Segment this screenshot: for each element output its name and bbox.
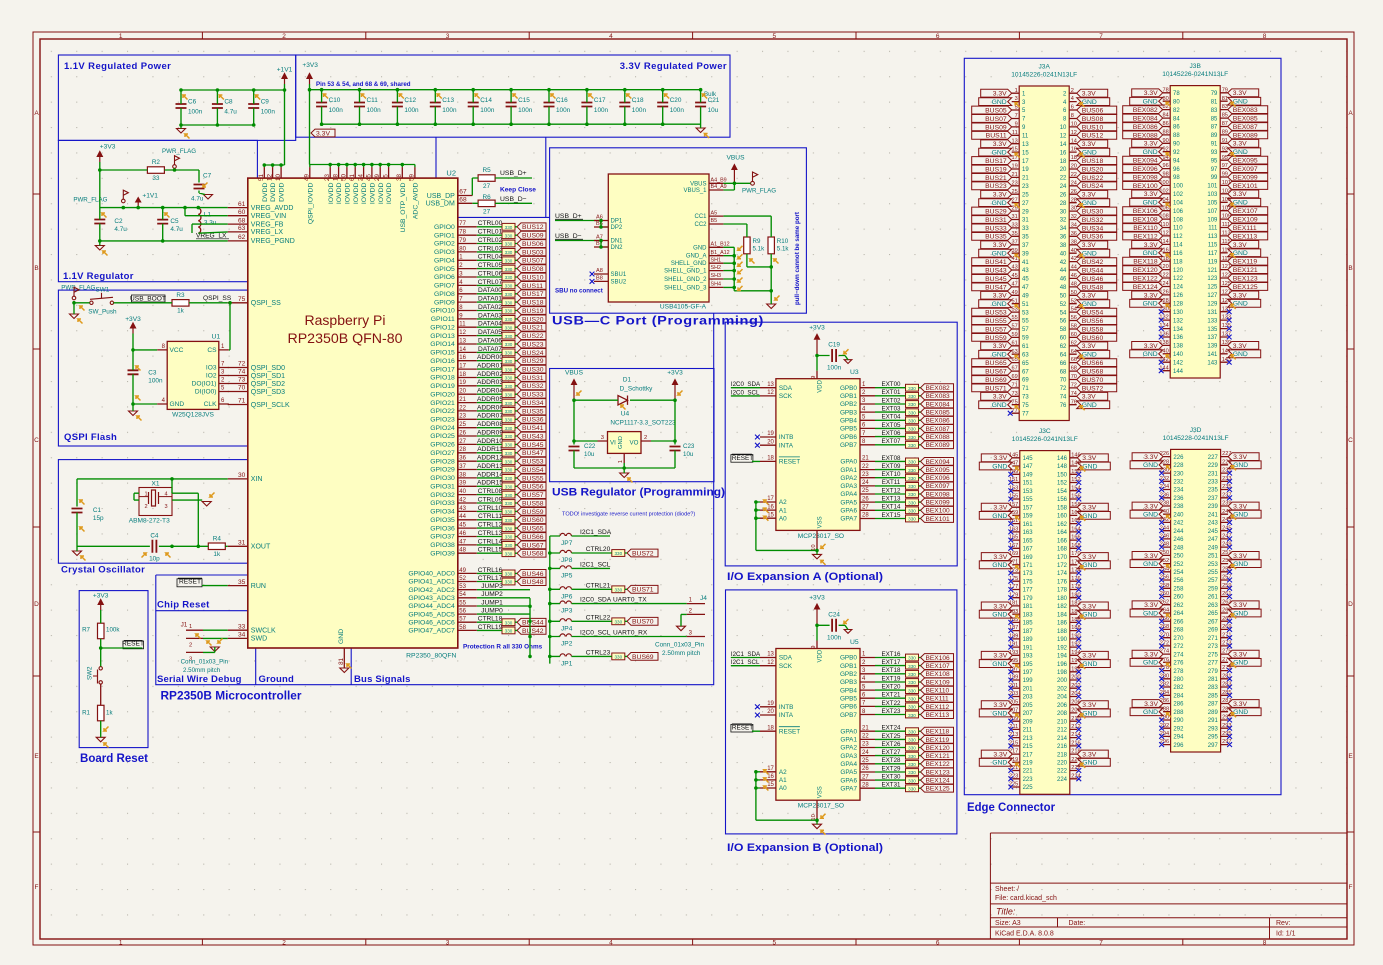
svg-text:62: 62 xyxy=(238,234,246,241)
resistor R9 5.1k xyxy=(744,237,750,254)
svg-text:DVDD: DVDD xyxy=(279,183,286,202)
svg-text:133: 133 xyxy=(1207,318,1218,324)
svg-text:102: 102 xyxy=(1173,192,1184,198)
svg-text:BUS24: BUS24 xyxy=(522,350,544,357)
svg-text:330: 330 xyxy=(908,509,916,514)
svg-text:330: 330 xyxy=(908,746,916,751)
svg-text:GPIO2: GPIO2 xyxy=(434,241,455,248)
svg-text:136: 136 xyxy=(1173,335,1184,341)
svg-text:135: 135 xyxy=(1207,327,1218,333)
svg-text:4.7u: 4.7u xyxy=(224,108,237,115)
svg-text:XIN: XIN xyxy=(251,476,263,483)
svg-text:54: 54 xyxy=(1060,310,1067,316)
svg-text:199: 199 xyxy=(1023,678,1034,684)
svg-text:GPIO33: GPIO33 xyxy=(430,500,455,507)
svg-text:188: 188 xyxy=(1057,629,1068,635)
svg-text:A1: A1 xyxy=(779,507,787,514)
svg-text:100n: 100n xyxy=(442,107,457,114)
svg-text:BUS07: BUS07 xyxy=(522,258,544,265)
svg-text:61: 61 xyxy=(238,201,246,208)
svg-text:GND: GND xyxy=(1143,512,1158,519)
svg-text:34: 34 xyxy=(238,632,246,639)
svg-text:286: 286 xyxy=(1173,702,1184,708)
svg-text:26: 26 xyxy=(862,766,869,772)
svg-text:56: 56 xyxy=(1060,319,1067,325)
ground at U2 GND pin xyxy=(340,668,349,673)
svg-text:4.7u: 4.7u xyxy=(170,226,183,233)
svg-text:4: 4 xyxy=(609,33,613,40)
capacitor C17 xyxy=(581,103,592,107)
svg-text:63: 63 xyxy=(238,225,246,232)
svg-text:VBUS: VBUS xyxy=(690,181,706,187)
svg-text:33: 33 xyxy=(152,175,160,182)
svg-text:BEX111: BEX111 xyxy=(1233,225,1257,232)
PWR_FLAG +1V1 xyxy=(122,199,126,203)
svg-text:238: 238 xyxy=(1173,504,1184,510)
svg-text:4: 4 xyxy=(165,492,168,498)
svg-text:17: 17 xyxy=(767,766,774,772)
svg-text:GND: GND xyxy=(992,612,1007,619)
svg-text:BEX120: BEX120 xyxy=(926,745,951,752)
svg-text:GPIO35: GPIO35 xyxy=(430,517,455,524)
svg-text:GND: GND xyxy=(1082,99,1097,106)
svg-text:BUS08: BUS08 xyxy=(1082,116,1104,123)
svg-text:24: 24 xyxy=(1060,184,1067,190)
svg-text:R3: R3 xyxy=(176,292,185,299)
svg-text:GPIO43_ADC3: GPIO43_ADC3 xyxy=(408,595,455,602)
svg-text:183: 183 xyxy=(1023,612,1034,618)
svg-text:Pin 53 & 54, and 68 & 69, shar: Pin 53 & 54, and 68 & 69, shared xyxy=(316,81,411,88)
svg-text:66: 66 xyxy=(1060,361,1067,367)
svg-text:QSPI_SD2: QSPI_SD2 xyxy=(251,381,285,388)
svg-text:SWD: SWD xyxy=(251,636,267,643)
svg-text:19: 19 xyxy=(767,431,774,437)
svg-text:D1: D1 xyxy=(623,377,632,384)
svg-text:BEX106: BEX106 xyxy=(926,655,951,662)
svg-text:IOVDD: IOVDD xyxy=(353,183,360,205)
jumper JP7 xyxy=(560,533,571,536)
svg-text:JP2: JP2 xyxy=(561,641,573,648)
svg-text:272: 272 xyxy=(1173,644,1184,650)
svg-text:QSPI_SS: QSPI_SS xyxy=(203,295,232,302)
svg-text:NCP1117-3.3_SOT223: NCP1117-3.3_SOT223 xyxy=(610,420,676,427)
svg-text:BEX112: BEX112 xyxy=(1133,233,1158,240)
svg-text:BUS60: BUS60 xyxy=(522,517,544,524)
svg-text:RESET: RESET xyxy=(779,459,800,466)
svg-text:264: 264 xyxy=(1173,611,1184,617)
svg-text:25: 25 xyxy=(862,488,869,494)
svg-text:118: 118 xyxy=(1173,259,1183,265)
svg-text:BEX125: BEX125 xyxy=(1233,284,1258,291)
svg-text:137: 137 xyxy=(1207,335,1218,341)
svg-text:BUS54: BUS54 xyxy=(1082,310,1104,317)
svg-text:GPA0: GPA0 xyxy=(840,459,857,466)
svg-text:C18: C18 xyxy=(632,97,644,104)
capacitor C19 100n xyxy=(832,349,836,362)
svg-text:29: 29 xyxy=(1022,209,1029,215)
svg-text:Protection R all 330 Ohms: Protection R all 330 Ohms xyxy=(463,644,543,651)
svg-text:C16: C16 xyxy=(556,97,568,104)
svg-text:3.3V: 3.3V xyxy=(993,554,1007,561)
svg-text:73: 73 xyxy=(1022,395,1029,401)
svg-text:17: 17 xyxy=(1022,159,1029,165)
svg-text:BUS46: BUS46 xyxy=(1082,276,1104,283)
svg-text:DN2: DN2 xyxy=(611,245,624,251)
svg-text:5: 5 xyxy=(772,33,776,40)
svg-text:GND: GND xyxy=(1233,99,1248,106)
svg-text:GPIO31: GPIO31 xyxy=(430,484,455,491)
svg-text:3.3V: 3.3V xyxy=(1233,454,1247,461)
svg-text:100n: 100n xyxy=(404,107,419,114)
svg-text:GPIO0: GPIO0 xyxy=(434,224,455,231)
svg-text:34: 34 xyxy=(1060,226,1067,232)
svg-text:3.3V: 3.3V xyxy=(1082,394,1096,401)
svg-text:3.3V: 3.3V xyxy=(1082,343,1096,350)
svg-text:139: 139 xyxy=(1207,344,1218,350)
svg-text:C: C xyxy=(1348,437,1353,444)
svg-text:BUS19: BUS19 xyxy=(522,308,544,315)
svg-text:129: 129 xyxy=(1207,302,1218,308)
svg-text:QSPI_SD1: QSPI_SD1 xyxy=(251,373,285,380)
svg-text:152: 152 xyxy=(1057,481,1068,487)
svg-text:QSPI Flash: QSPI Flash xyxy=(64,432,117,443)
svg-text:257: 257 xyxy=(1208,578,1219,584)
svg-text:100n: 100n xyxy=(329,107,344,114)
capacitor C20 xyxy=(657,103,668,107)
svg-text:100n: 100n xyxy=(518,107,533,114)
svg-text:SBU2: SBU2 xyxy=(611,279,627,285)
svg-text:3.3V: 3.3V xyxy=(1082,242,1096,249)
svg-text:10u: 10u xyxy=(708,107,719,114)
svg-text:BUS58: BUS58 xyxy=(522,500,544,507)
svg-text:176: 176 xyxy=(1057,580,1068,586)
svg-text:BUS06: BUS06 xyxy=(1082,107,1104,114)
svg-text:GND: GND xyxy=(992,352,1007,359)
svg-text:107: 107 xyxy=(1207,209,1218,215)
svg-text:269: 269 xyxy=(1208,628,1219,634)
svg-text:79: 79 xyxy=(1211,91,1218,97)
svg-text:DVDD: DVDD xyxy=(270,183,277,202)
svg-text:VDD: VDD xyxy=(818,649,824,662)
svg-text:244: 244 xyxy=(1173,529,1184,535)
svg-text:60: 60 xyxy=(238,209,246,216)
svg-text:SCK: SCK xyxy=(779,663,793,670)
svg-text:13: 13 xyxy=(1022,142,1029,148)
svg-text:Title:: Title: xyxy=(996,907,1016,917)
svg-text:227: 227 xyxy=(1208,455,1219,461)
svg-text:JP5: JP5 xyxy=(561,572,573,579)
svg-text:GPIO32: GPIO32 xyxy=(430,492,455,499)
svg-text:GPIO21: GPIO21 xyxy=(430,400,455,407)
svg-text:BEX106: BEX106 xyxy=(1133,208,1158,215)
svg-text:20: 20 xyxy=(767,709,774,715)
svg-text:100n: 100n xyxy=(594,107,609,114)
svg-text:X1: X1 xyxy=(151,481,159,488)
svg-text:17: 17 xyxy=(767,496,774,502)
svg-text:BUS11: BUS11 xyxy=(986,133,1007,140)
svg-text:BUS70: BUS70 xyxy=(632,619,654,626)
svg-text:225: 225 xyxy=(1023,785,1034,791)
svg-text:68: 68 xyxy=(459,197,467,204)
svg-text:194: 194 xyxy=(1057,654,1068,660)
svg-text:GND: GND xyxy=(1143,99,1158,106)
svg-text:Bus Signals: Bus Signals xyxy=(354,674,411,685)
svg-text:BUS45: BUS45 xyxy=(985,276,1007,283)
svg-text:330: 330 xyxy=(505,526,513,531)
svg-text:271: 271 xyxy=(1208,636,1219,642)
svg-text:219: 219 xyxy=(1023,761,1034,767)
svg-text:BEX108: BEX108 xyxy=(1133,217,1158,224)
svg-text:INTA: INTA xyxy=(779,712,794,719)
svg-text:CTRL20: CTRL20 xyxy=(586,546,611,553)
svg-text:3.3V: 3.3V xyxy=(1144,292,1158,299)
svg-text:74: 74 xyxy=(238,369,246,376)
svg-text:BUS72: BUS72 xyxy=(1082,385,1104,392)
svg-text:330: 330 xyxy=(908,729,916,734)
svg-text:USB4105-GF-A: USB4105-GF-A xyxy=(660,304,707,311)
svg-text:247: 247 xyxy=(1208,537,1219,543)
svg-text:GPIO19: GPIO19 xyxy=(430,383,455,390)
svg-text:212: 212 xyxy=(1057,728,1068,734)
svg-text:BEX112: BEX112 xyxy=(926,704,950,711)
svg-text:180: 180 xyxy=(1057,596,1068,602)
svg-text:141: 141 xyxy=(1207,352,1218,358)
svg-text:I/O Expansion B (Optional): I/O Expansion B (Optional) xyxy=(727,842,883,854)
svg-text:114: 114 xyxy=(1173,243,1183,249)
svg-text:GPB3: GPB3 xyxy=(840,679,857,686)
svg-text:330: 330 xyxy=(614,551,622,556)
svg-text:231: 231 xyxy=(1208,471,1219,477)
svg-text:16: 16 xyxy=(767,504,774,510)
ground board reset xyxy=(96,737,105,742)
svg-text:BEX120: BEX120 xyxy=(1133,267,1158,274)
svg-text:3.3V: 3.3V xyxy=(1082,702,1096,709)
svg-text:210: 210 xyxy=(1057,719,1068,725)
svg-text:BEX097: BEX097 xyxy=(926,483,951,490)
svg-text:28: 28 xyxy=(1060,201,1067,207)
svg-text:GND: GND xyxy=(1143,561,1158,568)
svg-text:BUS54: BUS54 xyxy=(522,467,544,474)
svg-text:3.3V: 3.3V xyxy=(1082,455,1096,462)
svg-text:82: 82 xyxy=(1173,108,1180,114)
svg-text:270: 270 xyxy=(1173,636,1184,642)
svg-text:330: 330 xyxy=(505,342,513,347)
svg-text:BEX084: BEX084 xyxy=(926,401,951,408)
svg-text:218: 218 xyxy=(1057,752,1068,758)
svg-text:BUS43: BUS43 xyxy=(985,267,1007,274)
svg-text:330: 330 xyxy=(908,738,916,743)
svg-text:GPIO7: GPIO7 xyxy=(434,283,455,290)
svg-text:134: 134 xyxy=(1173,327,1184,333)
ground at J4 pin 2 xyxy=(677,626,686,631)
svg-text:158: 158 xyxy=(1057,505,1068,511)
svg-text:U4: U4 xyxy=(621,411,630,418)
svg-text:3.3V: 3.3V xyxy=(1233,191,1247,198)
svg-text:16: 16 xyxy=(1060,150,1067,156)
svg-text:R4: R4 xyxy=(213,536,222,543)
svg-text:181: 181 xyxy=(1023,604,1034,610)
jumper JP1 xyxy=(560,654,571,657)
svg-text:122: 122 xyxy=(1173,276,1184,282)
svg-text:91: 91 xyxy=(1211,142,1218,148)
svg-text:171: 171 xyxy=(1023,563,1034,569)
svg-text:81: 81 xyxy=(1211,99,1218,105)
svg-text:18: 18 xyxy=(767,725,774,731)
svg-text:330: 330 xyxy=(908,754,916,759)
svg-text:3.3V: 3.3V xyxy=(993,702,1007,709)
svg-text:64: 64 xyxy=(1060,352,1067,358)
jumper JP3 xyxy=(560,601,571,604)
resistor R7 100k xyxy=(98,623,105,639)
svg-text:2: 2 xyxy=(189,643,192,649)
svg-text:SHELL_GND_1: SHELL_GND_1 xyxy=(664,269,707,275)
svg-text:3.3V: 3.3V xyxy=(1233,141,1247,148)
svg-text:10p: 10p xyxy=(149,555,160,562)
svg-text:261: 261 xyxy=(1208,595,1219,601)
svg-text:Raspberry Pi: Raspberry Pi xyxy=(305,313,386,328)
svg-text:SWCLK: SWCLK xyxy=(251,628,276,635)
ground right of crystal xyxy=(202,502,211,507)
svg-text:CTRL11: CTRL11 xyxy=(478,513,502,520)
svg-text:GPB2: GPB2 xyxy=(840,671,857,678)
svg-text:BEX121: BEX121 xyxy=(1233,267,1258,274)
svg-text:GPA4: GPA4 xyxy=(840,761,857,768)
svg-text:71: 71 xyxy=(1022,386,1029,392)
svg-text:195: 195 xyxy=(1023,662,1034,668)
keep-close box xyxy=(436,137,550,217)
svg-text:214: 214 xyxy=(1057,736,1068,742)
svg-text:QSPI_IOVDD: QSPI_IOVDD xyxy=(307,183,314,225)
svg-text:PWR_FLAG: PWR_FLAG xyxy=(162,148,196,155)
svg-text:100n: 100n xyxy=(261,108,276,115)
svg-text:175: 175 xyxy=(1023,580,1034,586)
svg-text:239: 239 xyxy=(1208,504,1219,510)
svg-text:166: 166 xyxy=(1057,538,1068,544)
svg-text:71: 71 xyxy=(238,398,246,405)
svg-text:3.3V: 3.3V xyxy=(1144,503,1158,510)
svg-text:GND: GND xyxy=(338,629,345,644)
svg-text:C17: C17 xyxy=(594,97,606,104)
svg-text:A0: A0 xyxy=(779,515,787,522)
svg-text:GPIO9: GPIO9 xyxy=(434,299,455,306)
svg-text:XOUT: XOUT xyxy=(251,544,271,551)
svg-text:BUS42: BUS42 xyxy=(522,628,544,635)
svg-text:3.3V: 3.3V xyxy=(1233,701,1247,708)
svg-text:19: 19 xyxy=(767,701,774,707)
svg-text:pull−down cannot be same port: pull−down cannot be same port xyxy=(794,212,801,305)
svg-text:+3V3: +3V3 xyxy=(100,144,116,151)
svg-text:179: 179 xyxy=(1023,596,1034,602)
svg-text:72: 72 xyxy=(1060,386,1067,392)
svg-text:BUS36: BUS36 xyxy=(522,417,544,424)
capacitor C10 xyxy=(316,103,327,107)
svg-text:DP2: DP2 xyxy=(611,225,623,231)
title block xyxy=(989,833,991,939)
svg-text:33: 33 xyxy=(238,623,246,630)
svg-text:JP3: JP3 xyxy=(561,608,573,615)
svg-text:62: 62 xyxy=(1060,344,1067,350)
svg-text:GPB4: GPB4 xyxy=(840,687,857,694)
svg-text:330: 330 xyxy=(505,259,513,264)
svg-text:53: 53 xyxy=(1022,310,1029,316)
svg-text:295: 295 xyxy=(1208,735,1219,741)
svg-text:132: 132 xyxy=(1173,318,1184,324)
svg-text:BEX098: BEX098 xyxy=(926,491,951,498)
svg-text:100n: 100n xyxy=(367,107,382,114)
svg-text:330: 330 xyxy=(505,284,513,289)
svg-text:BUS33: BUS33 xyxy=(985,225,1007,232)
svg-text:290: 290 xyxy=(1173,718,1184,724)
svg-text:3.3V: 3.3V xyxy=(1144,191,1158,198)
svg-text:9: 9 xyxy=(811,646,817,649)
power +3V3 at U1 xyxy=(132,328,134,334)
svg-text:IOVDD: IOVDD xyxy=(378,183,385,205)
svg-text:BUS70: BUS70 xyxy=(1082,377,1104,384)
svg-text:IOVDD: IOVDD xyxy=(328,183,335,205)
svg-text:+3V3: +3V3 xyxy=(302,62,318,69)
capacitor C22 xyxy=(569,447,580,451)
svg-text:5.1k: 5.1k xyxy=(753,246,766,253)
svg-text:330: 330 xyxy=(505,485,513,490)
svg-text:Crystal Oscillator: Crystal Oscillator xyxy=(61,565,145,576)
svg-text:Keep Close: Keep Close xyxy=(500,187,536,194)
svg-text:330: 330 xyxy=(614,655,622,660)
svg-text:GPIO34: GPIO34 xyxy=(430,509,455,516)
svg-text:BUS66: BUS66 xyxy=(522,534,544,541)
svg-text:3.3V: 3.3V xyxy=(993,141,1007,148)
svg-text:330: 330 xyxy=(908,492,916,497)
svg-text:10u: 10u xyxy=(584,451,595,458)
svg-text:C20: C20 xyxy=(670,97,682,104)
svg-text:127: 127 xyxy=(1207,293,1218,299)
svg-text:27: 27 xyxy=(483,183,491,190)
svg-text:GPA6: GPA6 xyxy=(840,508,857,515)
svg-text:BEX099: BEX099 xyxy=(1233,174,1258,181)
svg-text:A8: A8 xyxy=(596,268,603,274)
ground 1.1V regulator xyxy=(95,246,104,251)
svg-text:J3B: J3B xyxy=(1190,63,1202,70)
svg-text:BEX109: BEX109 xyxy=(926,679,951,686)
svg-text:235: 235 xyxy=(1208,488,1219,494)
svg-text:ABM8-272-T3: ABM8-272-T3 xyxy=(129,518,170,525)
svg-text:U5: U5 xyxy=(850,639,859,646)
svg-text:89: 89 xyxy=(1211,133,1218,139)
svg-text:TODO! investigate reverse curr: TODO! investigate reverse current protec… xyxy=(562,512,695,518)
svg-text:GND: GND xyxy=(1233,200,1248,207)
svg-text:128: 128 xyxy=(1173,302,1184,308)
svg-text:198: 198 xyxy=(1057,670,1068,676)
svg-text:3: 3 xyxy=(601,435,604,441)
svg-text:GPIO29: GPIO29 xyxy=(430,467,455,474)
svg-text:BUS03: BUS03 xyxy=(522,249,544,256)
svg-text:JP4: JP4 xyxy=(561,625,573,632)
svg-text:BUS09: BUS09 xyxy=(985,124,1007,131)
svg-text:260: 260 xyxy=(1173,595,1184,601)
svg-text:GPIO30: GPIO30 xyxy=(430,475,455,482)
svg-text:DO(IO1): DO(IO1) xyxy=(192,381,217,388)
svg-text:145: 145 xyxy=(1023,456,1034,462)
svg-text:204: 204 xyxy=(1057,695,1068,701)
svg-text:BEX125: BEX125 xyxy=(926,786,951,793)
svg-text:4: 4 xyxy=(609,939,613,946)
svg-text:110: 110 xyxy=(1173,226,1183,232)
svg-text:3.3V: 3.3V xyxy=(1144,90,1158,97)
svg-text:3.3V: 3.3V xyxy=(1082,91,1096,98)
svg-text:5.1k: 5.1k xyxy=(777,246,790,253)
svg-text:+3V3: +3V3 xyxy=(809,325,825,332)
svg-text:94: 94 xyxy=(1173,158,1180,164)
svg-text:R10: R10 xyxy=(777,238,789,245)
